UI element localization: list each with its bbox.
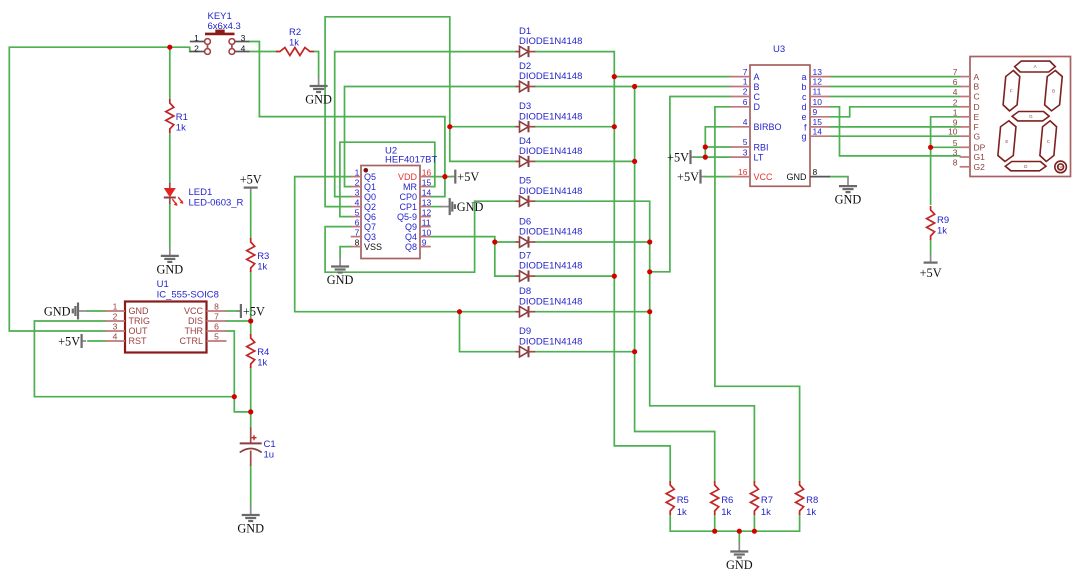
wire display E to DP and R9 bbox=[931, 117, 960, 204]
wire BIRBO branch bbox=[705, 127, 730, 157]
ground below R5-R8 bbox=[726, 542, 753, 572]
junction at 444.9,176.6 bbox=[442, 174, 447, 179]
svg-text:9: 9 bbox=[422, 237, 427, 247]
svg-text:1k: 1k bbox=[761, 507, 771, 518]
wire THR node to C1 node bbox=[234, 397, 250, 412]
junction at 754.4,531.2 bbox=[752, 529, 757, 534]
svg-text:BIRBO: BIRBO bbox=[754, 122, 782, 132]
svg-text:5: 5 bbox=[214, 332, 219, 342]
svg-text:6: 6 bbox=[953, 77, 958, 87]
LED LED1 LED-0603_R bbox=[164, 183, 244, 209]
diode D9 DIODE1N4148 bbox=[516, 326, 583, 357]
op-amp U2 HEF4017BT decade counter bbox=[351, 146, 438, 259]
svg-text:4: 4 bbox=[953, 87, 958, 97]
svg-text:G2: G2 bbox=[974, 162, 986, 172]
wire U3 D pin6 to R8 bbox=[715, 107, 800, 481]
svg-text:IC_555-SOIC8: IC_555-SOIC8 bbox=[157, 290, 219, 301]
svg-text:Q5-9: Q5-9 bbox=[397, 212, 417, 222]
svg-text:1: 1 bbox=[355, 167, 360, 177]
svg-text:+5V: +5V bbox=[243, 305, 265, 319]
ground at U3 GND pin8 bbox=[835, 177, 862, 207]
wire U1 DIS pin7 bbox=[227, 320, 251, 322]
svg-text:6: 6 bbox=[214, 322, 219, 332]
wire D7 cathode to A bus bbox=[535, 275, 614, 277]
svg-text:2: 2 bbox=[355, 177, 360, 187]
svg-text:6: 6 bbox=[743, 97, 748, 107]
+5V above R3 bbox=[240, 173, 262, 193]
svg-text:+5V: +5V bbox=[457, 170, 479, 184]
svg-text:7: 7 bbox=[214, 312, 219, 322]
diode D4 DIODE1N4148 bbox=[516, 136, 583, 167]
svg-text:10: 10 bbox=[422, 227, 432, 237]
svg-text:DIODE1N4148: DIODE1N4148 bbox=[519, 146, 582, 157]
svg-text:HEF4017BT: HEF4017BT bbox=[385, 155, 437, 166]
wire U2 CP1 pin13 to GND bbox=[431, 206, 441, 208]
svg-text:Q0: Q0 bbox=[364, 192, 376, 202]
svg-text:3: 3 bbox=[355, 187, 360, 197]
svg-text:GND: GND bbox=[129, 306, 150, 316]
wire R2 right to GND bbox=[314, 52, 319, 77]
wire A bus to U3 A pin7 bbox=[614, 76, 730, 78]
svg-text:F: F bbox=[1010, 88, 1013, 93]
svg-text:DIODE1N4148: DIODE1N4148 bbox=[519, 336, 582, 347]
junction at 614.3,276.1 bbox=[612, 274, 617, 279]
svg-text:C: C bbox=[974, 92, 980, 102]
svg-text:16: 16 bbox=[422, 167, 432, 177]
+5V at U1 VCC pin8 bbox=[236, 304, 265, 319]
ground below C1 bbox=[237, 506, 264, 536]
svg-text:VCC: VCC bbox=[754, 172, 774, 182]
svg-text:Q6: Q6 bbox=[364, 212, 376, 222]
svg-text:3: 3 bbox=[241, 33, 246, 43]
svg-text:LED-0603_R: LED-0603_R bbox=[189, 198, 244, 209]
wire KEY1 pin3 to pin4/R2 and down to CP0 bus bbox=[249, 42, 259, 117]
wire D9 cathode to B bus bbox=[535, 351, 634, 353]
diode D2 DIODE1N4148 bbox=[516, 61, 583, 92]
diode D5 DIODE1N4148 bbox=[516, 176, 583, 207]
+5V at U3 VCC pin16 bbox=[677, 170, 705, 185]
svg-text:9: 9 bbox=[813, 107, 818, 117]
svg-text:d: d bbox=[801, 102, 806, 112]
wire U1 VCC pin8 to +5V bbox=[227, 310, 239, 312]
svg-text:15: 15 bbox=[422, 177, 432, 187]
svg-text:5: 5 bbox=[953, 138, 958, 148]
wire KEY bus to U2 CP0 pin14 bbox=[259, 117, 445, 197]
svg-text:DIODE1N4148: DIODE1N4148 bbox=[519, 36, 582, 47]
+5V below R9 bbox=[920, 254, 942, 280]
svg-text:OUT: OUT bbox=[129, 326, 149, 336]
svg-text:GND: GND bbox=[237, 522, 264, 536]
wire U2 VDD pin16 to +5V bbox=[431, 176, 454, 178]
svg-text:G: G bbox=[974, 131, 981, 141]
wire R9 to +5V bbox=[930, 240, 932, 254]
wire U2 Q5 pin1 to D8 D9 anodes bbox=[295, 177, 516, 312]
svg-text:+5V: +5V bbox=[920, 266, 942, 280]
wire U2 Q1 pin2 to D2 anode bbox=[345, 87, 516, 187]
junction at 634.6,86.5 bbox=[632, 84, 637, 89]
svg-text:+5V: +5V bbox=[58, 335, 80, 349]
svg-text:12: 12 bbox=[422, 207, 432, 217]
key KEY1 6x6x4.3 push button bbox=[190, 11, 250, 54]
wire junction to R1 bbox=[169, 47, 171, 99]
wire D2 cathode to B bus and U3 B pin1 bbox=[535, 86, 730, 88]
svg-text:1k: 1k bbox=[677, 507, 687, 518]
svg-text:R4: R4 bbox=[257, 347, 269, 358]
wire D3 cathode to A bus bbox=[535, 126, 614, 128]
svg-text:R9: R9 bbox=[937, 215, 949, 226]
svg-text:RBI: RBI bbox=[754, 142, 769, 152]
ground at U2 CP1 pin13 bbox=[441, 198, 484, 215]
+5V at U2 VDD pin16 bbox=[451, 170, 480, 185]
svg-text:R3: R3 bbox=[257, 251, 269, 262]
svg-text:2: 2 bbox=[953, 97, 958, 107]
svg-text:C1: C1 bbox=[264, 439, 276, 450]
ground at U2 VSS pin8 bbox=[327, 257, 354, 287]
ground below LED1 bbox=[156, 246, 183, 276]
svg-text:B: B bbox=[974, 82, 980, 92]
svg-text:GND: GND bbox=[726, 558, 753, 572]
junction at 705.3,157.1 bbox=[703, 155, 708, 160]
junction at 634.6,161.4 bbox=[632, 159, 637, 164]
svg-text:1k: 1k bbox=[289, 38, 299, 49]
wire Q5 branch to D9 anode bbox=[460, 312, 516, 352]
wire U3 GND pin8 to ground bbox=[830, 176, 848, 178]
svg-text:D: D bbox=[754, 102, 761, 112]
wire U2 Q4 pin10 to D6 D7 anodes bbox=[431, 237, 516, 277]
svg-text:R7: R7 bbox=[761, 495, 773, 506]
svg-text:1k: 1k bbox=[806, 507, 816, 518]
svg-text:GND: GND bbox=[787, 172, 808, 182]
wire KEY1 junction to pin2 jog bbox=[170, 47, 191, 51]
junction at 169.8,47.2 bbox=[167, 45, 172, 50]
svg-text:GND: GND bbox=[327, 273, 354, 287]
svg-text:2: 2 bbox=[743, 87, 748, 97]
junction at 614.3,126.7 bbox=[612, 124, 617, 129]
wire D5 cathode to C bus bbox=[535, 201, 754, 481]
svg-text:3: 3 bbox=[953, 148, 958, 158]
svg-text:E: E bbox=[1005, 139, 1008, 144]
wire U1 RST pin4 from +5V bbox=[88, 340, 105, 342]
svg-text:C: C bbox=[754, 92, 761, 102]
op-amp U1 IC_555-SOIC8 timer bbox=[105, 279, 227, 353]
svg-text:10: 10 bbox=[813, 97, 823, 107]
svg-text:A: A bbox=[1034, 64, 1037, 69]
wire +5V to BIRBO RBI LT pins bbox=[694, 156, 730, 158]
svg-text:GND: GND bbox=[305, 93, 332, 107]
wire C bus jog to U3 C pin2 bbox=[650, 97, 730, 272]
resistor R2 1k bbox=[276, 27, 314, 56]
svg-text:R6: R6 bbox=[721, 495, 733, 506]
svg-text:a: a bbox=[801, 72, 806, 82]
diode D1 DIODE1N4148 bbox=[516, 26, 583, 57]
wire U3 c to display C bbox=[830, 96, 960, 98]
wire Q2 branch to D3 anode bbox=[450, 126, 516, 128]
svg-text:11: 11 bbox=[422, 217, 431, 227]
junction at 634.6,351.7 bbox=[632, 349, 637, 354]
junction at 739.3,531.2 bbox=[737, 529, 742, 534]
wire LED1 to GND bbox=[169, 204, 171, 246]
svg-text:8: 8 bbox=[813, 167, 818, 177]
svg-text:13: 13 bbox=[813, 67, 823, 77]
wire D4 cathode to B bus bbox=[535, 160, 634, 162]
svg-text:DP: DP bbox=[974, 143, 986, 153]
svg-text:1k: 1k bbox=[721, 507, 731, 518]
resistor R1 1k bbox=[166, 99, 188, 134]
svg-text:2: 2 bbox=[113, 312, 118, 322]
wire +5V to R3 bbox=[250, 192, 252, 238]
svg-text:1k: 1k bbox=[176, 123, 186, 134]
svg-text:8: 8 bbox=[214, 302, 219, 312]
wire R6 bottom bbox=[714, 515, 716, 531]
svg-text:DIODE1N4148: DIODE1N4148 bbox=[519, 227, 582, 238]
svg-text:VDD: VDD bbox=[398, 172, 418, 182]
svg-text:1k: 1k bbox=[257, 358, 267, 369]
diode D3 DIODE1N4148 bbox=[516, 101, 583, 132]
svg-text:DIODE1N4148: DIODE1N4148 bbox=[519, 111, 582, 122]
svg-text:DP: DP bbox=[1058, 165, 1062, 169]
svg-text:14: 14 bbox=[813, 126, 823, 136]
junction at 614.3,76.6 bbox=[612, 74, 617, 79]
svg-text:VCC: VCC bbox=[184, 306, 204, 316]
svg-text:1u: 1u bbox=[264, 450, 275, 461]
svg-text:+5V: +5V bbox=[240, 173, 262, 187]
svg-text:VSS: VSS bbox=[364, 242, 382, 252]
wire R7 bottom bbox=[753, 515, 755, 531]
svg-text:1: 1 bbox=[194, 33, 199, 43]
svg-text:1: 1 bbox=[113, 302, 118, 312]
svg-text:1: 1 bbox=[743, 77, 748, 87]
wire U3 e to display D bbox=[830, 107, 960, 117]
svg-text:5: 5 bbox=[743, 137, 748, 147]
svg-text:D: D bbox=[974, 102, 980, 112]
diode D7 DIODE1N4148 bbox=[516, 251, 583, 282]
svg-text:b: b bbox=[801, 82, 806, 92]
junction at 459.5,311.7 bbox=[457, 309, 462, 314]
junction at 449.8,126.7 bbox=[447, 124, 452, 129]
wire R3 to U1 DIS junction and R4 bbox=[250, 272, 252, 334]
svg-text:CTRL: CTRL bbox=[179, 336, 203, 346]
svg-text:LT: LT bbox=[754, 153, 764, 163]
svg-text:R1: R1 bbox=[176, 112, 188, 123]
wire U3 f to display F bbox=[830, 126, 960, 128]
svg-text:DIODE1N4148: DIODE1N4148 bbox=[519, 261, 582, 272]
wire U2 Q6 pin5 to MR pin15 bbox=[340, 142, 435, 216]
wire 555 OUT to KEY1 junction (left rail) bbox=[9, 47, 170, 331]
svg-text:R5: R5 bbox=[677, 495, 689, 506]
resistor R4 1k bbox=[247, 334, 270, 369]
wire U2 Q0 pin3 to D1 anode bbox=[335, 52, 516, 197]
svg-text:DIODE1N4148: DIODE1N4148 bbox=[519, 71, 582, 82]
svg-text:4: 4 bbox=[113, 332, 118, 342]
svg-text:Q5: Q5 bbox=[364, 172, 376, 182]
svg-text:Q4: Q4 bbox=[405, 232, 417, 242]
wire R5-R8 bottom rail to GND bbox=[670, 515, 799, 531]
svg-text:Q1: Q1 bbox=[364, 182, 376, 192]
wire D8 cathode to C bus bbox=[535, 311, 650, 313]
svg-text:G: G bbox=[1029, 114, 1033, 119]
wire KEY1 pin4 to R2 bbox=[249, 51, 276, 53]
svg-text:4: 4 bbox=[241, 43, 246, 53]
svg-text:TRIG: TRIG bbox=[129, 316, 151, 326]
resistor R6 1k bbox=[711, 481, 734, 518]
svg-text:MR: MR bbox=[403, 182, 417, 192]
op-amp U3 BCD to 7-segment decoder bbox=[730, 44, 830, 186]
svg-text:CP1: CP1 bbox=[399, 202, 417, 212]
svg-text:GND: GND bbox=[44, 305, 71, 319]
wire D6 cathode to C bus bbox=[535, 241, 650, 243]
svg-text:A: A bbox=[974, 72, 980, 82]
wire B bus vertical to R6 bbox=[635, 87, 715, 482]
svg-text:CP0: CP0 bbox=[399, 192, 417, 202]
wire U2 VSS pin8 to GND bbox=[340, 247, 351, 257]
ground below R2 bbox=[305, 77, 332, 107]
svg-text:DIODE1N4148: DIODE1N4148 bbox=[519, 296, 582, 307]
svg-text:DIS: DIS bbox=[188, 316, 203, 326]
wire U3 g to display G bbox=[830, 135, 960, 137]
svg-text:3: 3 bbox=[743, 147, 748, 157]
junction at 250.7,411.9 bbox=[248, 409, 253, 414]
svg-text:Q9: Q9 bbox=[405, 222, 417, 232]
wire U1 TRIG pin2 feedback bbox=[34, 321, 234, 397]
junction at 494.8,242 bbox=[492, 239, 497, 244]
svg-text:+5V: +5V bbox=[677, 170, 699, 184]
svg-text:g: g bbox=[801, 132, 806, 142]
svg-text:6: 6 bbox=[355, 217, 360, 227]
wire D1 cathode to A bus bbox=[535, 52, 670, 481]
svg-text:4: 4 bbox=[743, 117, 748, 127]
wire R1 to LED1 bbox=[169, 133, 171, 183]
svg-text:10: 10 bbox=[948, 127, 958, 137]
junction at 649.7,311.7 bbox=[647, 309, 652, 314]
svg-text:R2: R2 bbox=[289, 27, 301, 38]
svg-text:B: B bbox=[754, 82, 760, 92]
junction at 649.7,271.8 bbox=[647, 269, 652, 274]
svg-text:2: 2 bbox=[194, 43, 199, 53]
junction at 234.3,396.7 bbox=[232, 394, 237, 399]
svg-text:GND: GND bbox=[156, 262, 183, 276]
svg-text:16: 16 bbox=[738, 167, 748, 177]
svg-text:G1: G1 bbox=[974, 152, 986, 162]
resistor R3 1k bbox=[247, 238, 270, 273]
svg-text:8: 8 bbox=[355, 237, 360, 247]
+5V at U3 LT RBI BIRBO bbox=[667, 150, 695, 165]
svg-text:DIODE1N4148: DIODE1N4148 bbox=[519, 186, 582, 197]
wire R4 to C1 bbox=[250, 368, 252, 428]
svg-text:U3: U3 bbox=[773, 44, 785, 55]
svg-text:7: 7 bbox=[953, 67, 958, 77]
junction at 705.3,147 bbox=[703, 144, 708, 149]
wire C1 to GND bbox=[250, 466, 252, 506]
svg-text:U1: U1 bbox=[157, 279, 169, 290]
wire U3 d to display G1 bbox=[830, 107, 960, 156]
wire RBI branch bbox=[705, 146, 730, 148]
svg-text:11: 11 bbox=[813, 87, 822, 97]
resistor R9 1k bbox=[927, 206, 950, 240]
svg-text:1k: 1k bbox=[937, 226, 947, 237]
svg-text:1: 1 bbox=[953, 107, 958, 117]
svg-text:7: 7 bbox=[355, 227, 360, 237]
wire U3 b to display B bbox=[830, 86, 960, 88]
svg-text:5: 5 bbox=[355, 207, 360, 217]
junction at 930.6,147.3 bbox=[928, 145, 933, 150]
svg-text:THR: THR bbox=[185, 326, 204, 336]
svg-text:1k: 1k bbox=[257, 262, 267, 273]
7-segment display U4 bbox=[948, 57, 1070, 177]
svg-text:14: 14 bbox=[422, 187, 432, 197]
svg-text:RST: RST bbox=[129, 336, 148, 346]
wire U3 a to display A bbox=[830, 76, 960, 78]
capacitor C1 1u polarized bbox=[240, 428, 276, 466]
svg-text:13: 13 bbox=[422, 197, 432, 207]
svg-text:LED1: LED1 bbox=[189, 187, 213, 198]
resistor R5 1k bbox=[666, 481, 689, 518]
wire +5V to U3 VCC pin16 bbox=[705, 176, 731, 178]
wire U2 Q7 pin6 to D5 anode bbox=[325, 201, 515, 272]
svg-text:Q2: Q2 bbox=[364, 202, 376, 212]
svg-text:7: 7 bbox=[743, 67, 748, 77]
diode D8 DIODE1N4148 bbox=[516, 286, 583, 317]
svg-text:+5V: +5V bbox=[667, 151, 689, 165]
svg-text:A: A bbox=[754, 72, 760, 82]
svg-text:B: B bbox=[1052, 88, 1055, 93]
svg-text:12: 12 bbox=[813, 77, 823, 87]
wire U1 GND pin1 from ground bbox=[88, 310, 105, 312]
svg-text:8: 8 bbox=[953, 157, 958, 167]
wire Q4 branch to D6 anode bbox=[495, 241, 516, 243]
junction at 250.7,321 bbox=[248, 318, 253, 323]
svg-text:Q8: Q8 bbox=[405, 242, 417, 252]
wire U1 THR pin6 down bbox=[227, 331, 235, 397]
svg-text:Q3: Q3 bbox=[364, 232, 376, 242]
ground at U1 pin1 bbox=[44, 303, 88, 320]
svg-text:GND: GND bbox=[835, 193, 862, 207]
svg-text:R8: R8 bbox=[806, 495, 818, 506]
svg-text:GND: GND bbox=[457, 200, 484, 214]
junction at 649.7,242 bbox=[647, 239, 652, 244]
+5V at U1 RST pin4 bbox=[58, 334, 86, 349]
resistor R7 1k bbox=[750, 481, 773, 518]
wire GND stem R5-R8 rail bbox=[738, 531, 740, 542]
svg-text:4: 4 bbox=[355, 197, 360, 207]
resistor R8 1k bbox=[796, 481, 819, 518]
wire U2 Q2 pin4 to D3 D4 anodes via top bus bbox=[325, 17, 515, 207]
junction at 714.7,531.2 bbox=[712, 529, 717, 534]
diode D6 DIODE1N4148 bbox=[516, 216, 583, 247]
svg-text:c: c bbox=[802, 92, 807, 102]
svg-text:e: e bbox=[801, 112, 806, 122]
svg-text:E: E bbox=[974, 112, 980, 122]
wire display DP row bbox=[931, 146, 960, 148]
svg-text:Q7: Q7 bbox=[364, 222, 376, 232]
svg-text:3: 3 bbox=[113, 322, 118, 332]
